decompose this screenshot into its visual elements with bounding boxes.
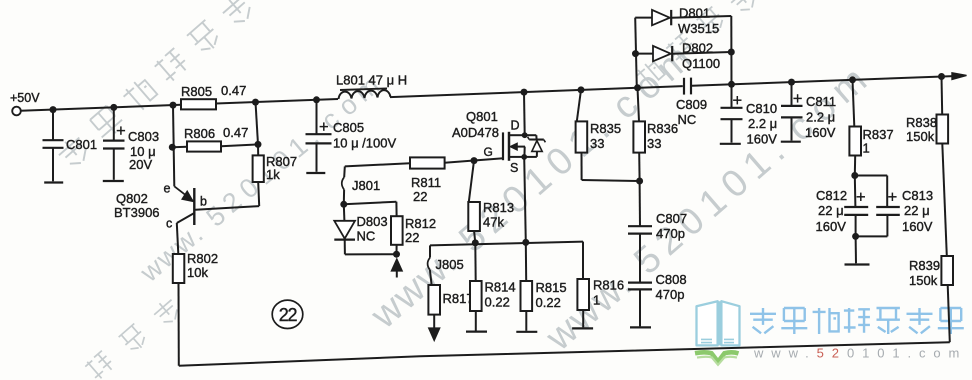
svg-text:R806: R806 — [184, 126, 215, 141]
node Q801 drain stub junction — [522, 132, 528, 138]
node R838 rail junction — [938, 73, 945, 80]
wire bottom rail — [179, 342, 950, 366]
wire R838 to R839 — [942, 144, 947, 257]
node R836 bottom junction — [636, 178, 643, 185]
node R805 right junction — [252, 99, 259, 106]
svg-text:10 μ /100V: 10 μ /100V — [333, 136, 396, 151]
svg-text:22 μ: 22 μ — [904, 203, 930, 218]
capacitor C811 — [791, 82, 793, 106]
node R836 rail junction — [634, 84, 641, 91]
svg-text:C803: C803 — [128, 129, 159, 144]
ground C812 C813 — [845, 263, 870, 265]
svg-text:C807: C807 — [656, 211, 687, 226]
svg-text:C811: C811 — [806, 94, 836, 109]
node D802 cathode junction — [728, 49, 735, 56]
svg-text:0.22: 0.22 — [536, 295, 561, 310]
svg-text:C810: C810 — [746, 101, 777, 116]
svg-text:G: G — [484, 145, 493, 159]
svg-text:1: 1 — [593, 293, 600, 308]
wire left vertical to emitter — [173, 105, 174, 186]
capacitor C810 — [731, 84, 733, 108]
svg-text:1k: 1k — [266, 167, 280, 182]
capacitor C805 — [316, 100, 318, 134]
svg-text:R812: R812 — [405, 216, 436, 231]
svg-text:22: 22 — [405, 230, 419, 245]
node C810 rail junction — [728, 81, 735, 88]
output arrow below R817 (down) — [433, 315, 435, 328]
wire bottom rail right vertical — [948, 285, 950, 342]
node R813 bottom junction — [472, 239, 479, 246]
svg-text:NC: NC — [678, 112, 697, 127]
node R837 bottom junction — [851, 172, 858, 179]
svg-text:470p: 470p — [656, 226, 685, 241]
node R812 bottom junction — [393, 251, 400, 258]
svg-text:160V: 160V — [816, 219, 847, 234]
resistor R837 — [853, 80, 855, 127]
node Q801 source stub junction — [521, 154, 527, 160]
wire top rail C809-to-arrow segment — [692, 76, 953, 86]
capacitor C813 — [888, 196, 896, 198]
terminal +50V — [12, 107, 21, 116]
svg-text:R805: R805 — [181, 84, 212, 99]
resistor R835 — [577, 90, 581, 122]
capacitor C807 — [639, 181, 641, 226]
svg-text:C808: C808 — [656, 272, 687, 287]
capacitor C809 (series in rail) — [683, 78, 685, 95]
wire source node — [430, 242, 583, 246]
resistor R812 — [395, 202, 397, 217]
svg-text:Q801: Q801 — [466, 109, 498, 124]
page reference circled 22 — [272, 300, 303, 328]
wire C812 C813 bottom link — [856, 235, 888, 237]
ground R814 — [466, 331, 487, 333]
svg-text:b: b — [200, 195, 207, 209]
ground R816 — [572, 327, 593, 329]
wire R802 bottom to bottom rail — [178, 283, 180, 366]
resistor R813 — [469, 161, 474, 202]
svg-text:C809: C809 — [676, 97, 707, 112]
svg-text:22: 22 — [413, 189, 427, 204]
svg-text:0.22: 0.22 — [485, 295, 510, 310]
logo CJK title strokes — [750, 308, 776, 333]
svg-text:D803: D803 — [357, 214, 388, 229]
svg-text:R816: R816 — [593, 278, 624, 293]
svg-text:J801: J801 — [352, 178, 380, 193]
resistor R807 — [253, 155, 264, 182]
wire C813 top link — [855, 175, 887, 177]
svg-text:20V: 20V — [129, 157, 152, 172]
svg-text:D801: D801 — [679, 6, 710, 21]
watermark band 1 (CJK diagonal, top-left) — [55, 133, 93, 171]
resistor R817 — [428, 285, 440, 315]
svg-text:D: D — [511, 119, 520, 133]
svg-text:R815: R815 — [536, 280, 567, 295]
diode D803 — [343, 204, 346, 221]
resistor R839 — [941, 256, 953, 285]
node R837 rail junction — [849, 76, 856, 83]
svg-text:1: 1 — [863, 141, 870, 156]
svg-text:R835: R835 — [590, 121, 621, 136]
svg-text:150k: 150k — [909, 273, 938, 288]
svg-text:47k: 47k — [483, 215, 504, 230]
resistor R815 — [525, 242, 527, 281]
watermark band 5 (CJK diagonal, top-right) — [634, 59, 666, 91]
node D802 anode junction — [632, 50, 639, 57]
svg-text:R802: R802 — [187, 251, 218, 266]
svg-text:R813: R813 — [483, 200, 514, 215]
ground C808 — [630, 326, 651, 328]
node Q801 source node junction — [522, 239, 529, 246]
node Q801 drain rail junction — [521, 89, 528, 96]
svg-text:150k: 150k — [906, 129, 935, 144]
resistor R802 — [173, 254, 185, 283]
node J801 bottom junction — [340, 201, 347, 208]
diode D802 — [636, 53, 654, 55]
svg-text:22: 22 — [279, 305, 298, 325]
logo book icon — [697, 301, 740, 345]
wire D803 R812 top link — [344, 202, 397, 205]
svg-text:10k: 10k — [187, 265, 208, 280]
svg-text:R811: R811 — [411, 175, 441, 190]
node R813 top junction — [471, 157, 478, 164]
node C805 top junction — [313, 96, 320, 103]
svg-text:33: 33 — [647, 136, 661, 151]
resistor R816 — [582, 242, 584, 279]
wire J801 node to R811 — [345, 163, 410, 166]
node C801 top junction — [50, 106, 57, 113]
ground R815 — [516, 331, 537, 333]
transistor Q802 — [193, 188, 195, 225]
wire top rail left segment — [21, 105, 181, 111]
resistor R806 — [172, 146, 187, 148]
wire diode branch left vertical — [635, 18, 637, 88]
wire R807 bottom to base — [258, 182, 259, 206]
svg-text:160V: 160V — [902, 219, 933, 234]
svg-text:22 μ: 22 μ — [818, 203, 844, 218]
capacitor C812 — [854, 176, 857, 208]
watermark fragment bottom-left CJK — [84, 350, 116, 380]
resistor R838 — [941, 77, 944, 115]
wire R811 to gate — [445, 158, 504, 163]
capacitor C801 — [52, 110, 54, 141]
svg-text:W3515: W3515 — [678, 21, 719, 36]
wire diode branch right vertical — [730, 16, 732, 84]
svg-text:R836: R836 — [647, 121, 678, 136]
node left-vertical top junction — [170, 102, 177, 109]
svg-text:R838: R838 — [906, 115, 937, 130]
wire D803 R812 bottom link — [345, 253, 397, 255]
svg-text:33: 33 — [590, 136, 604, 151]
wire R805R806 junction vertical — [256, 102, 259, 144]
svg-text:e: e — [164, 182, 171, 196]
svg-text:c: c — [166, 216, 172, 230]
svg-text:S: S — [510, 161, 518, 175]
mosfet Q801 — [502, 132, 504, 160]
node C811 rail junction — [788, 79, 795, 86]
svg-text:470p: 470p — [656, 287, 685, 302]
svg-text:C801: C801 — [66, 137, 97, 152]
node R835 rail junction — [578, 86, 585, 93]
connector J805 — [429, 245, 431, 257]
wire R835 R836 bottom link — [582, 180, 640, 181]
svg-text:NC: NC — [357, 229, 376, 244]
node R806 left junction — [169, 144, 176, 151]
inductor L801 — [339, 90, 391, 99]
wire top rail L801-to-C809 segment — [390, 86, 683, 97]
resistor R814 — [474, 243, 476, 281]
svg-text:0.47: 0.47 — [221, 83, 246, 98]
svg-text:R839: R839 — [909, 258, 940, 273]
svg-text:2.2 μ: 2.2 μ — [748, 116, 777, 131]
node C803 top junction — [110, 104, 117, 111]
resistor R811 — [410, 157, 445, 168]
node C812 bottom junction — [852, 233, 859, 240]
svg-text:0.47: 0.47 — [223, 125, 248, 140]
svg-text:R817: R817 — [443, 291, 474, 306]
node R806 right junction — [255, 141, 262, 148]
logo green swoosh — [695, 352, 739, 362]
svg-text:C812: C812 — [816, 188, 847, 203]
wire top rail R805-to-L801 segment — [216, 99, 338, 104]
drive input arrow (up) — [391, 259, 402, 271]
diode D801 — [635, 17, 652, 19]
capacitor C808 — [639, 234, 641, 283]
svg-text:BT3906: BT3906 — [114, 205, 160, 220]
capacitor C803 — [113, 107, 115, 140]
svg-text:C813: C813 — [902, 188, 933, 203]
watermark band 3 (large www.520101.com diagonal, centre) — [363, 37, 700, 337]
svg-text:L801 47 μ H: L801 47 μ H — [336, 73, 407, 88]
svg-text:C805: C805 — [333, 120, 364, 135]
svg-text:www.520101.com: www.520101.com — [753, 346, 967, 361]
svg-text:A0D478: A0D478 — [452, 125, 499, 140]
svg-text:D802: D802 — [682, 41, 713, 56]
resistor R836 — [638, 88, 640, 122]
svg-text:160V: 160V — [805, 125, 836, 140]
top rail output arrowhead — [952, 73, 967, 80]
svg-text:Q802: Q802 — [116, 191, 148, 206]
svg-text:J805: J805 — [436, 257, 464, 272]
svg-text:160V: 160V — [747, 132, 778, 147]
mosfet Q801 body zener diode — [525, 134, 537, 136]
svg-text:+50V: +50V — [10, 91, 40, 105]
svg-text:Q1100: Q1100 — [682, 56, 720, 71]
resistor R805 — [181, 99, 216, 109]
svg-text:R814: R814 — [485, 280, 516, 295]
watermark band 2 (www.520101.com diagonal, lower-left) — [134, 70, 385, 288]
connector J801 — [343, 166, 346, 177]
watermark band 4 (large www.520101 diagonal, right-centre) — [538, 59, 875, 359]
svg-text:2.2 μ: 2.2 μ — [806, 110, 835, 125]
